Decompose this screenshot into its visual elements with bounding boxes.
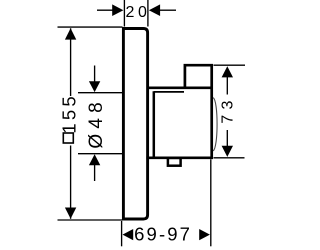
svg-text:Ø48: Ø48 [86,97,107,149]
dimension 155: top arrowhead [65,28,76,39]
dimension 73: extension and dimension lines [214,65,246,158]
dimension 69-97: left arrowhead [123,229,134,240]
dimension 73: bottom arrowhead [222,146,233,157]
svg-text:155: 155 [58,93,79,133]
dimension diameter 48: extension and dimension lines [78,66,123,182]
grip seam horizontal line [154,91,184,93]
svg-text:73: 73 [220,95,237,124]
select button on top of handle [185,65,213,88]
handle body outline [146,64,211,159]
eco-stop tab under handle [168,158,181,166]
grip seam vertical line [153,91,156,156]
dimension 155: bottom arrowhead [65,208,76,219]
dimension 69-97: extension lines [122,159,211,246]
dimension 20: left arrowhead [112,4,123,16]
svg-text:69-97: 69-97 [134,223,192,244]
handle front face arc [213,98,217,151]
dimension 20: right arrowhead [149,4,160,16]
escutcheon plate (side view, wall plate 155x155) [123,29,147,220]
dimension 73: top arrowhead [222,66,233,77]
dimension 155: square symbol [63,133,73,143]
dimension 155: extension and dimension lines [58,27,123,220]
svg-text:20: 20 [126,4,151,21]
dimension 69-97: right arrowhead [199,229,210,240]
dimension diameter 48: top arrowhead [89,81,100,92]
dimension diameter 48: bottom arrowhead [89,154,100,165]
dimension 20: extension and dimension lines [97,0,176,27]
